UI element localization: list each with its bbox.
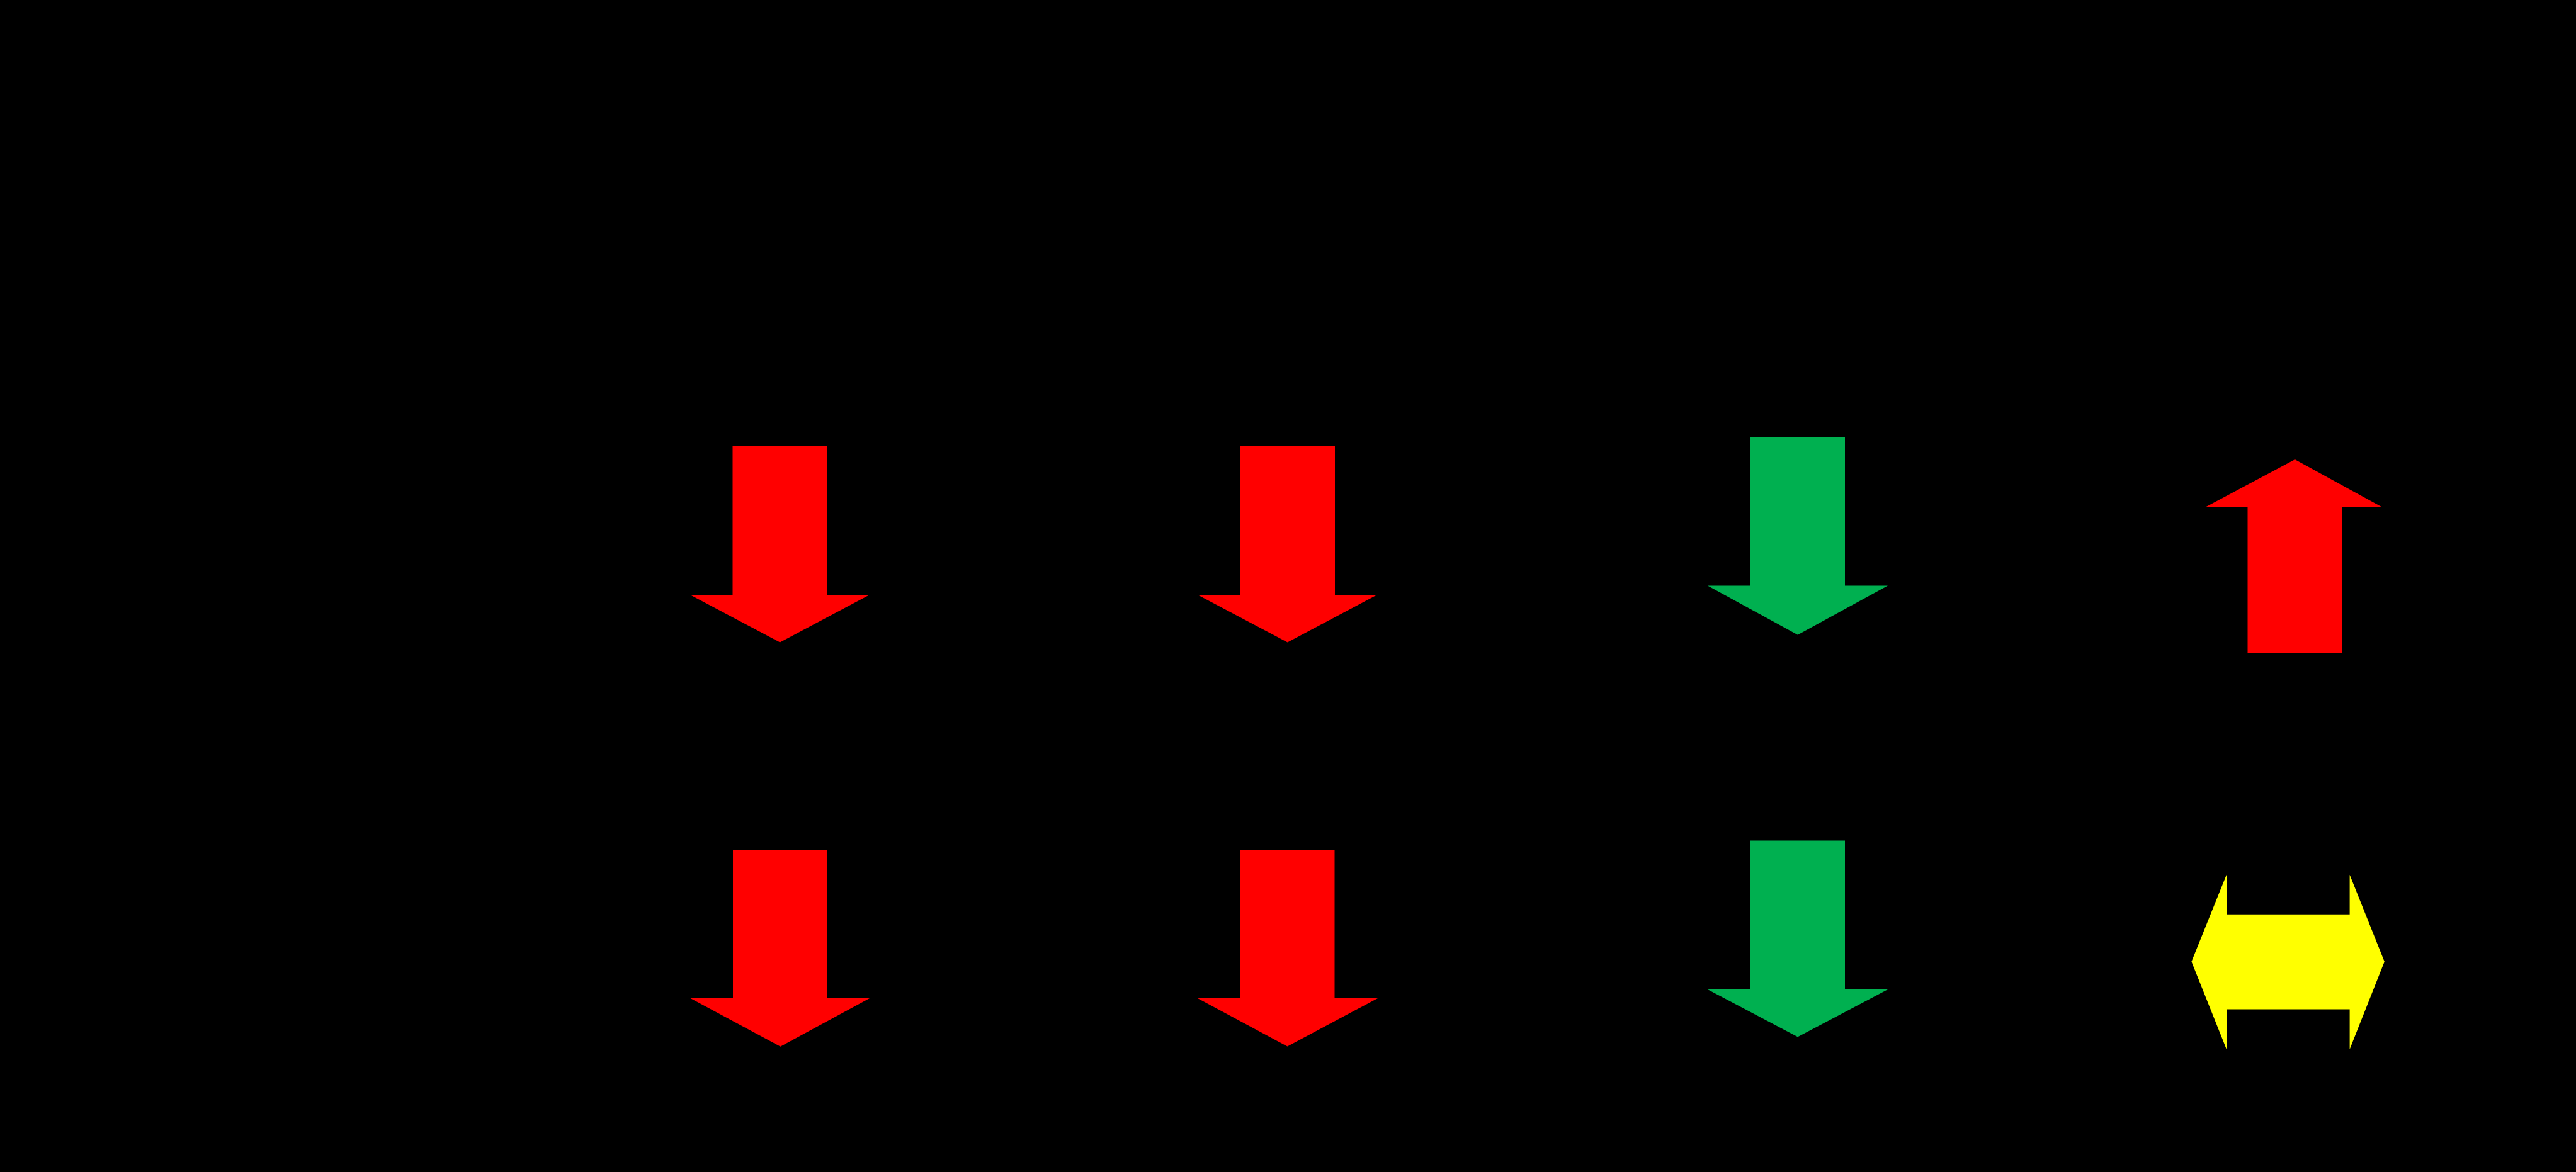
red down arrow row1 col1 bbox=[690, 446, 870, 643]
green down arrow row2 col3 bbox=[1708, 841, 1888, 1037]
green down arrow row1 col3 bbox=[1708, 437, 1888, 635]
red down arrow row2 col2 bbox=[1198, 850, 1378, 1047]
yellow left-right arrow row2 col4 bbox=[2191, 875, 2384, 1049]
red up arrow row1 col4 bbox=[2206, 459, 2382, 653]
red down arrow row1 col2 bbox=[1198, 446, 1377, 643]
red down arrow row2 col1 bbox=[691, 850, 870, 1047]
